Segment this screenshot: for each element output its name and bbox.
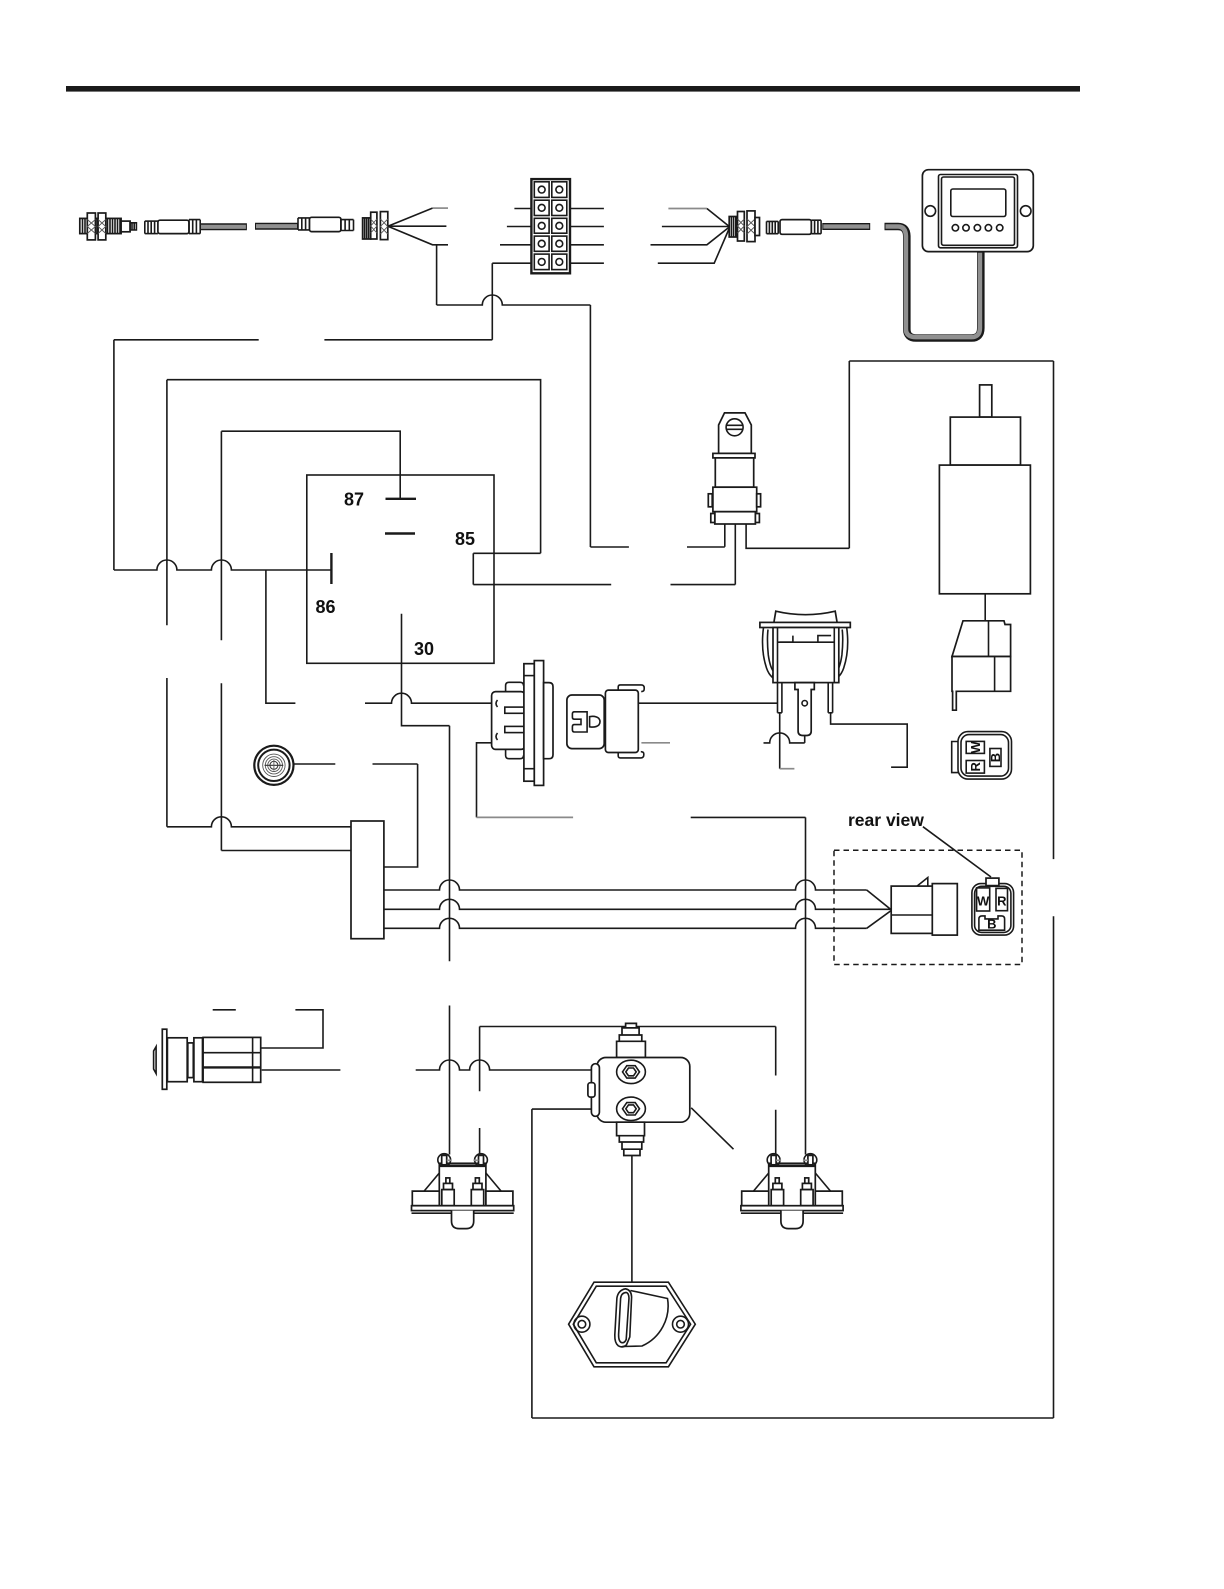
wire y547 to fuel solenoid	[590, 546, 724, 548]
svg-text:W: W	[977, 894, 990, 909]
wire y703 to connector	[365, 693, 491, 703]
male connector half	[492, 661, 553, 786]
leader rear view	[923, 827, 991, 877]
relay pin 87 bar	[386, 498, 417, 500]
key switch	[154, 1029, 261, 1089]
svg-text:30: 30	[414, 639, 434, 659]
wire rocker left pin stubs	[779, 713, 781, 769]
svg-text:B: B	[987, 917, 996, 932]
wire x167 drop	[166, 380, 168, 827]
wire bulkhead row4 drop	[436, 245, 438, 305]
wire relay30 down	[402, 614, 450, 726]
wire block out 3	[384, 918, 867, 928]
terminal block	[351, 821, 384, 939]
wire row4 to relay85 net horizontal y305	[437, 295, 591, 305]
wire y305 drop to y547	[589, 305, 591, 547]
seat switch left	[412, 1154, 514, 1229]
wire row4 left	[500, 244, 531, 246]
relay box	[307, 475, 494, 663]
engine box outline	[532, 361, 1054, 1418]
wire block out 1	[384, 880, 867, 890]
wire fan from bulkhead to 10-pin connector	[388, 208, 433, 226]
wire solenoid left pin	[724, 524, 726, 547]
wire key switch upper	[213, 1010, 323, 1048]
wire female to rocker left pin	[638, 702, 778, 704]
fuel shutoff solenoid	[708, 413, 760, 524]
wire row2 right stub	[570, 208, 604, 210]
wire solenoid center pin	[734, 524, 736, 585]
wire rocker right pin	[831, 713, 908, 767]
wire key switch lower to valve	[262, 1069, 341, 1071]
leader valve	[691, 1108, 733, 1149]
wire x449 drop to seat switch	[449, 726, 451, 1155]
starter connector	[952, 621, 1011, 710]
wire long drop x805	[805, 817, 807, 1154]
svg-text:R: R	[997, 894, 1007, 909]
wire row3 left	[507, 226, 532, 228]
wire row4 right stub	[570, 244, 604, 246]
wire x221 into terminal block	[221, 850, 351, 852]
wire x114 drop	[113, 340, 115, 570]
sensor probe	[80, 213, 137, 240]
svg-text:B: B	[988, 753, 1003, 762]
display cable stub	[822, 223, 870, 230]
svg-text:87: 87	[344, 490, 364, 510]
wire starter to connector	[984, 594, 986, 621]
wire row2 left	[514, 208, 531, 210]
display bulkhead connector	[729, 211, 759, 242]
fuel sender plate	[569, 1282, 696, 1367]
connector side view in callout	[891, 878, 957, 936]
svg-text:W: W	[968, 741, 983, 754]
relay pin 86 bar	[330, 553, 332, 584]
display plug	[767, 220, 822, 235]
indicator lamp	[254, 746, 293, 785]
wire male lower to long drop	[477, 743, 492, 818]
PTO connector front view	[952, 732, 1012, 780]
wire x221 drop	[220, 431, 222, 850]
wire relay85 bottom to fuel solenoid	[473, 584, 735, 586]
wire lamp to block	[294, 764, 418, 867]
relay 85 notch	[472, 553, 474, 584]
wire row5 right stub	[570, 262, 604, 264]
header rule	[66, 86, 1080, 92]
dashed callout box	[834, 850, 1022, 964]
hydraulic valve	[588, 1023, 690, 1155]
wire relay85 top to y380	[167, 380, 541, 554]
wire valve to fuel sender	[631, 1156, 633, 1283]
svg-text:85: 85	[455, 529, 475, 549]
seat switch right	[741, 1154, 843, 1229]
hour meter display	[922, 170, 1033, 252]
female connector half	[567, 685, 644, 758]
svg-text:rear view: rear view	[848, 810, 924, 830]
wire coil stub	[266, 570, 296, 703]
wire solenoid right pin to box	[746, 361, 849, 548]
wire row5 left	[492, 262, 531, 264]
wire y570 to relay pin86	[114, 560, 332, 570]
display cable loop	[885, 227, 981, 339]
relay armature bar	[385, 532, 415, 534]
wire to relay87 net y431	[221, 431, 400, 499]
wire row5 drop	[491, 263, 493, 340]
svg-text:86: 86	[316, 597, 336, 617]
starter motor	[939, 385, 1030, 594]
wire y340 long horizontal	[114, 339, 492, 341]
sensor cable with connectors	[145, 217, 354, 233]
rocker switch	[760, 611, 850, 735]
connector rear view face	[972, 878, 1014, 935]
wire row3 right stub	[570, 226, 604, 228]
wire x167 into terminal block	[167, 817, 351, 827]
10-pin connector	[531, 179, 570, 273]
bulkhead connector left	[363, 212, 388, 240]
wire block out 2	[384, 899, 891, 909]
wire fan into display connector	[668, 208, 707, 210]
wire left switch right terminal net	[479, 1027, 481, 1155]
wire female lower to rocker center pin	[641, 742, 670, 744]
svg-text:R: R	[968, 761, 983, 771]
